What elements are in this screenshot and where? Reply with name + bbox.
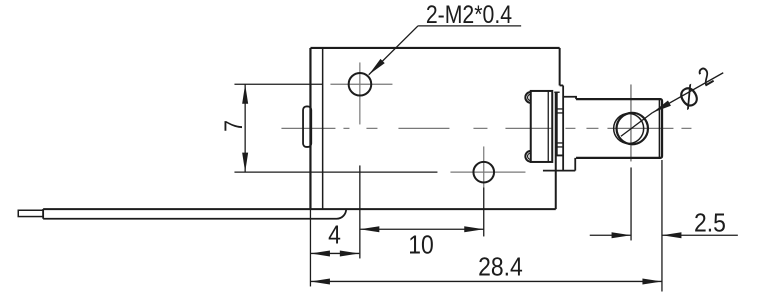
hole 2 centerlines bbox=[450, 146, 525, 187]
svg-text:2-M2*0.4: 2-M2*0.4 bbox=[426, 0, 512, 28]
hole 1 centerlines bbox=[330, 62, 392, 124]
label dia 2 leader bbox=[652, 73, 723, 113]
dimension 2.5 bbox=[590, 234, 738, 236]
body inner left line bbox=[322, 48, 324, 209]
body left edge bbox=[309, 48, 311, 209]
left tab bbox=[303, 106, 311, 147]
boss slot upper bbox=[557, 109, 563, 113]
hole M2 upper bbox=[349, 73, 372, 96]
main centerline bbox=[281, 127, 691, 129]
boss channel line bbox=[556, 92, 558, 155]
plunger hole inner bbox=[614, 114, 644, 144]
bracket plate bbox=[531, 91, 553, 162]
wire stripped end bbox=[18, 210, 43, 216]
svg-text:4: 4 bbox=[328, 221, 341, 249]
dimension 4 bbox=[310, 252, 359, 254]
dimension 7 line bbox=[244, 84, 246, 172]
dimension 28.4 bbox=[310, 280, 662, 282]
body right edge upper bbox=[559, 48, 561, 85]
dimension 7 extension lines bbox=[234, 84, 437, 172]
label 2-M2*0.4 leader bbox=[369, 26, 521, 75]
right notch close bbox=[554, 91, 559, 93]
wire lead bbox=[43, 209, 346, 219]
top step to plunger bbox=[560, 85, 576, 170]
body right edge lower bbox=[555, 92, 557, 209]
boss slot lower bbox=[557, 143, 563, 147]
bracket bottom clip bbox=[525, 151, 530, 162]
bottom step to plunger bbox=[543, 155, 575, 170]
plunger hole centerline bbox=[630, 84, 632, 161]
svg-text:10: 10 bbox=[408, 231, 434, 259]
bracket top clip bbox=[525, 92, 530, 103]
svg-text:28.4: 28.4 bbox=[478, 253, 523, 281]
svg-text:7: 7 bbox=[219, 120, 247, 132]
svg-text:2.5: 2.5 bbox=[694, 209, 726, 237]
body bottom edge + wire top edge bbox=[43, 208, 556, 210]
plunger bbox=[576, 99, 662, 158]
dimension 10 bbox=[360, 228, 484, 230]
body top edge bbox=[310, 47, 559, 49]
body outline bbox=[43, 48, 560, 209]
extension lines bottom bbox=[310, 160, 662, 292]
hole M2 lower bbox=[473, 162, 494, 183]
plunger hole outer bbox=[617, 113, 648, 144]
